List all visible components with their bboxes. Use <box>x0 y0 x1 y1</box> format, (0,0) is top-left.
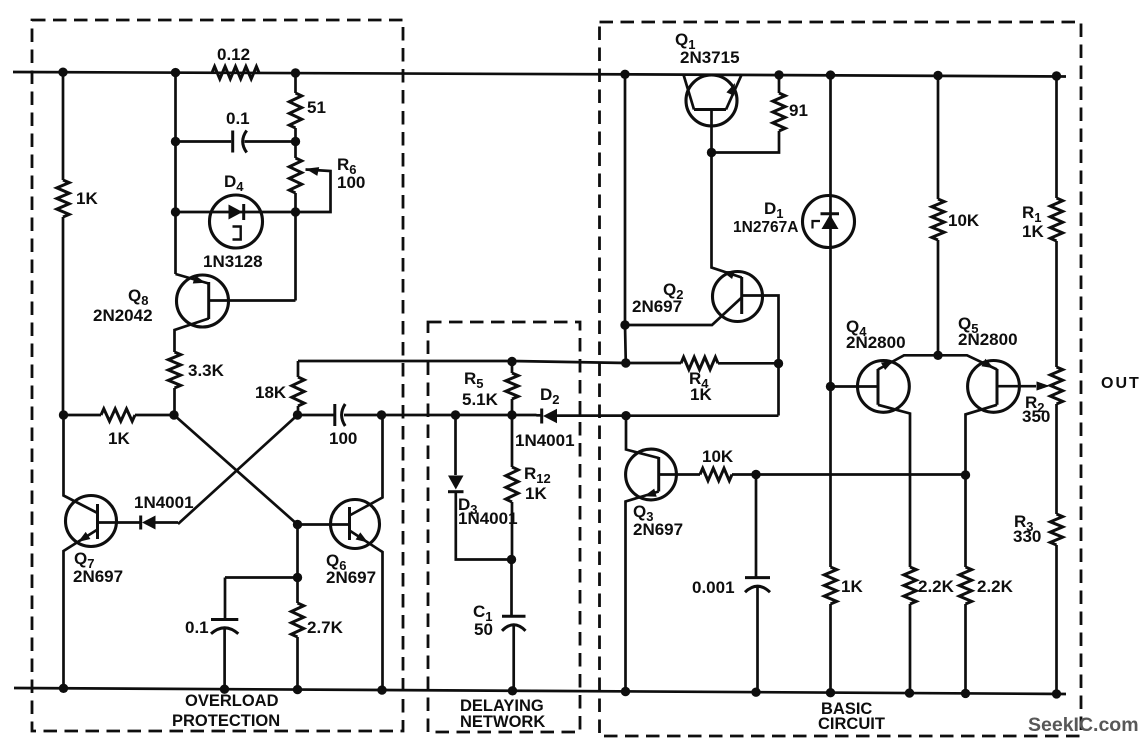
node bottom rail at 2.2K first <box>905 688 914 697</box>
svg-text:1N4001: 1N4001 <box>458 509 518 528</box>
svg-text:1K: 1K <box>76 189 98 208</box>
node bottom rail at R3 <box>1052 689 1061 698</box>
node R5 top <box>507 357 516 366</box>
text DELAYING NETWORK <box>460 697 545 731</box>
svg-text:2N3715: 2N3715 <box>680 48 740 67</box>
transistor Q5 2N2800 <box>938 314 1050 567</box>
svg-text:1K: 1K <box>690 385 712 404</box>
svg-text:NETWORK: NETWORK <box>460 713 545 731</box>
diode D3 1N4001 <box>448 415 518 560</box>
svg-text:0.001: 0.001 <box>692 578 735 597</box>
capacitor 100 coupling <box>298 404 382 448</box>
resistor R1 1K <box>1022 76 1063 367</box>
diode D1 1N2767A zener <box>733 75 855 386</box>
node top rail basic-box left <box>620 70 629 79</box>
transistor Q7 2N697 <box>64 415 141 688</box>
potentiometer R2 350 <box>1022 367 1063 426</box>
node top rail at 10K branch <box>933 71 942 80</box>
node Q7 collector / 1K horizontal <box>59 410 68 419</box>
svg-text:2N697: 2N697 <box>633 520 683 539</box>
wire bottom ground rail <box>14 688 1066 694</box>
wire Q3 base line to Q5 emitter <box>756 473 966 476</box>
node bottom rail at 1K resistor <box>826 688 835 697</box>
node D4 wire right <box>291 207 300 216</box>
dashed box OVERLOAD PROTECTION <box>32 20 403 731</box>
resistor R6 100 rheostat <box>289 142 365 213</box>
node A flipflop left <box>169 410 178 419</box>
svg-text:2.2K: 2.2K <box>977 577 1014 596</box>
resistor R4 1K <box>626 357 779 404</box>
svg-text:2.2K: 2.2K <box>918 577 955 596</box>
node R4 right / Q2 emitter <box>774 359 783 368</box>
svg-text:2N697: 2N697 <box>326 568 376 587</box>
resistor 18K <box>255 361 304 415</box>
svg-text:0.12: 0.12 <box>217 45 250 64</box>
svg-text:50: 50 <box>474 620 493 639</box>
node 100 cap right / Q6 collector <box>377 410 386 419</box>
node Q6 base <box>293 520 302 529</box>
transistor Q4 2N2800 <box>831 317 939 567</box>
svg-text:1N4001: 1N4001 <box>515 431 575 450</box>
dashed box DELAYING NETWORK <box>428 322 580 732</box>
svg-text:18K: 18K <box>255 383 287 402</box>
node 51 / 0.1 / R6 <box>291 137 300 146</box>
svg-text:2N697: 2N697 <box>632 297 682 316</box>
capacitor C1 50 <box>473 560 526 692</box>
node top rail right of 0.12 <box>291 68 300 77</box>
resistor 2.7K <box>291 578 343 691</box>
node D2 line / Q3 collector <box>621 411 630 420</box>
wire basic-box left vertical <box>624 74 627 363</box>
node top rail at D1 branch <box>826 70 835 79</box>
node B flipflop right <box>293 410 302 419</box>
resistor 51 <box>289 73 326 142</box>
capacitor 0.1 lower <box>185 618 238 690</box>
node bottom rail at Q6 emitter <box>377 685 386 694</box>
svg-text:330: 330 <box>1013 527 1041 546</box>
node Q4/Q5 collectors / 10K <box>933 351 942 360</box>
node top rail at R1 branch <box>1052 71 1061 80</box>
svg-text:2N2042: 2N2042 <box>93 306 153 325</box>
node R4 left <box>621 358 630 367</box>
node bottom rail at 2.2K second <box>961 689 970 698</box>
svg-text:0.1: 0.1 <box>185 618 209 637</box>
resistor 3.3K <box>168 352 224 415</box>
svg-text:1K: 1K <box>841 577 863 596</box>
text OVERLOAD PROTECTION <box>172 692 280 730</box>
node Q1 base / 91 <box>707 148 716 157</box>
svg-text:1K: 1K <box>108 429 130 448</box>
wire y415 into basic box <box>557 414 626 417</box>
svg-text:3.3K: 3.3K <box>188 361 225 380</box>
svg-text:2N2800: 2N2800 <box>846 333 906 352</box>
svg-text:2N2800: 2N2800 <box>958 330 1018 349</box>
svg-text:10K: 10K <box>948 211 980 230</box>
svg-text:91: 91 <box>789 101 808 120</box>
resistor 2.2K second <box>959 567 1013 693</box>
wire cross-couple A to Q6 base <box>174 415 298 525</box>
node bottom rail at Q7 emitter <box>59 684 68 693</box>
svg-text:2N697: 2N697 <box>73 567 123 586</box>
svg-text:1N4001: 1N4001 <box>134 493 194 512</box>
transistor Q3 2N697 <box>626 416 701 691</box>
svg-text:2.7K: 2.7K <box>307 618 344 637</box>
resistor R12 1K <box>506 415 551 560</box>
svg-text:350: 350 <box>1022 407 1050 426</box>
node 0.1/2.7K junction <box>293 573 302 582</box>
resistor R5 5.1K <box>462 362 518 416</box>
resistor 1K vertical left <box>57 180 99 217</box>
node R12/D3/C1 junction <box>507 555 516 564</box>
diode D4 1N3128 tunnel <box>203 172 263 271</box>
wire cross-couple B to Q7 diode <box>178 415 298 524</box>
dashed box BASIC CIRCUIT <box>600 22 1082 736</box>
wire to 0.1 lower cap <box>225 578 298 620</box>
wire left 1K branch upper <box>62 72 65 180</box>
svg-text:SeekIC.com: SeekIC.com <box>1028 714 1139 736</box>
svg-text:100: 100 <box>337 173 365 192</box>
wire left 1K branch lower <box>62 217 65 415</box>
wire Q8 emitter column <box>174 73 177 274</box>
node bottom rail at 2.7K <box>293 685 302 694</box>
node D3 top <box>451 410 460 419</box>
node bottom rail at C1 <box>508 686 517 695</box>
resistor 1K lower <box>824 387 863 693</box>
transistor Q1 2N3715 <box>675 30 742 153</box>
resistor 10K upper <box>932 76 980 356</box>
svg-text:OUT: OUT <box>1101 375 1141 392</box>
diode D2 1N4001 <box>515 385 626 450</box>
diode 1N4001 at Q7 base <box>134 493 194 530</box>
node bottom rail at Q3 emitter <box>621 687 630 696</box>
transistor Q6 2N697 <box>298 415 383 690</box>
wire Q6 base node down <box>296 525 299 578</box>
node Q4 base / D1 / 1K <box>826 382 835 391</box>
wire D2 line to Q2 emitter <box>626 414 779 417</box>
node 0.1 cap left <box>171 137 180 146</box>
capacitor 0.1 upper <box>176 109 296 153</box>
node D4 wire left <box>171 207 180 216</box>
node Q5 emitter / 10K line <box>961 470 970 479</box>
resistor 2.2K first <box>904 567 955 693</box>
node top rail at 1K branch <box>58 68 67 77</box>
node Q2 base branch <box>620 320 629 329</box>
text OUT <box>1101 375 1141 392</box>
wire y415 to delaying network <box>382 414 537 417</box>
node top rail at Q8 column <box>171 68 180 77</box>
node R12 top <box>507 410 516 419</box>
svg-text:1N3128: 1N3128 <box>203 252 263 271</box>
svg-text:PROTECTION: PROTECTION <box>172 712 280 730</box>
wire D4 line <box>176 211 296 214</box>
node 10K / 0.001 <box>751 470 760 479</box>
resistor 10K at Q3 base <box>700 447 756 481</box>
wire feedback line y361 <box>298 361 626 363</box>
resistor 1K horizontal <box>64 409 175 448</box>
capacitor 0.001 <box>692 475 770 693</box>
node bottom rail at 0.001 cap <box>751 688 760 697</box>
resistor 91 <box>712 75 808 153</box>
svg-text:1K: 1K <box>1022 222 1044 241</box>
transistor Q2 2N697 <box>625 153 779 416</box>
svg-text:OVERLOAD: OVERLOAD <box>185 692 279 710</box>
svg-text:100: 100 <box>329 429 357 448</box>
node top rail at 91 branch <box>774 70 783 79</box>
resistor 0.12 on top rail <box>212 45 259 79</box>
svg-text:1K: 1K <box>525 484 547 503</box>
wire top supply rail <box>13 72 1066 77</box>
svg-text:10K: 10K <box>702 447 734 466</box>
text BASIC CIRCUIT <box>818 700 885 733</box>
svg-text:1N2767A: 1N2767A <box>733 219 799 236</box>
node bottom rail at 0.1 cap <box>220 685 229 694</box>
watermark SeekIC.com <box>1028 714 1139 736</box>
svg-text:0.1: 0.1 <box>226 109 250 128</box>
transistor Q8 2N2042 <box>93 212 296 352</box>
svg-text:5.1K: 5.1K <box>462 390 499 409</box>
svg-text:51: 51 <box>307 98 326 117</box>
svg-text:CIRCUIT: CIRCUIT <box>818 715 885 733</box>
resistor R3 330 <box>1013 404 1063 694</box>
